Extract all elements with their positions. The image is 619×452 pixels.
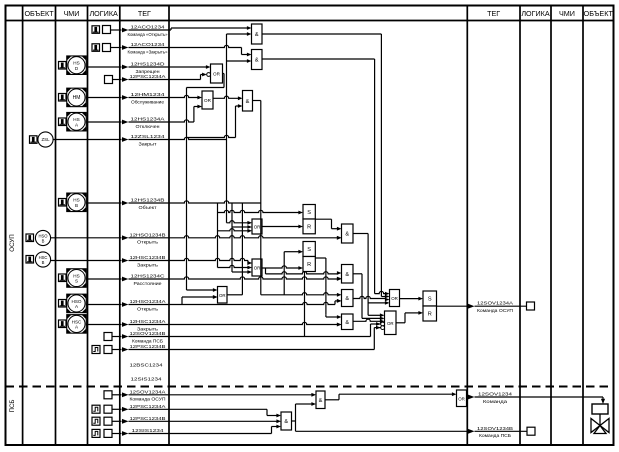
output net: 12SOV1234B Команда ПСБ xyxy=(468,426,527,438)
net: FF2 Q to AND D in1 xyxy=(315,258,337,317)
svg-text:12ACO1234: 12ACO1234 xyxy=(131,25,166,30)
HMI faceplate icon row1 xyxy=(92,26,100,34)
svg-text:ZSL: ZSL xyxy=(41,137,50,142)
svg-text:Закрыт: Закрыт xyxy=(139,141,157,146)
svg-text:12PSC1234B: 12PSC1234B xyxy=(130,416,166,421)
HMI handswitch HS/A xyxy=(67,112,87,131)
svg-text:B: B xyxy=(75,203,78,208)
output net: FF3 Q to 12SOV1234A Команда ОСУП xyxy=(437,301,527,313)
svg-text:12SOV1234B: 12SOV1234B xyxy=(130,331,166,336)
svg-text:12BSC1234: 12BSC1234 xyxy=(130,363,164,368)
svg-text:Отключен: Отключен xyxy=(136,124,161,129)
logic input square row4 xyxy=(105,76,113,84)
net: AND A output to OR G9/G10 xyxy=(353,234,385,316)
svg-text:S: S xyxy=(307,210,311,216)
AND gate A xyxy=(342,224,354,243)
HMI faceplate icon row5 xyxy=(59,94,67,102)
wire + tag 12ZSL1234 Закрыт xyxy=(53,134,226,146)
OR gate G4 (service/off) xyxy=(202,91,213,109)
svg-text:B: B xyxy=(42,238,45,243)
wire + tag 12HSC1234B Закрыть xyxy=(51,255,252,267)
svg-text:&: & xyxy=(345,272,349,278)
svg-text:Расстояние: Расстояние xyxy=(134,281,163,286)
wire + tag 12PSC1234A xyxy=(113,74,206,82)
logic input square row2 xyxy=(103,44,111,52)
HMI faceplate icon row13 xyxy=(59,320,67,328)
logic input square b4 xyxy=(104,429,112,437)
svg-text:12PSC1234B: 12PSC1234B xyxy=(130,344,166,349)
HMI handswitch HSO/A xyxy=(67,294,87,313)
svg-text:ОБЪЕКТ: ОБЪЕКТ xyxy=(584,9,614,18)
wire + tag 12SIS1234 (ПСБ) xyxy=(112,425,281,436)
HMI faceplate icon row6 xyxy=(59,118,67,126)
OR gate G9 (set) xyxy=(390,290,400,307)
svg-text:12PSC1234A: 12PSC1234A xyxy=(130,74,166,79)
logic pulse icon b2 xyxy=(92,405,100,413)
wire + tag 12HS1234C Расстояние xyxy=(87,274,342,286)
svg-text:Команда ОСУП: Команда ОСУП xyxy=(130,397,166,402)
OR gate G3 (inhibit) xyxy=(211,64,223,83)
logic input square row14 xyxy=(104,333,112,341)
wire + tag 12HSC1234A Закрыть xyxy=(87,319,342,331)
svg-text:12ZSL1234: 12ZSL1234 xyxy=(131,134,166,139)
svg-text:R: R xyxy=(307,262,311,268)
net: AND U1 output to OR U2 xyxy=(325,394,452,400)
svg-text:Команда ПСБ: Команда ПСБ xyxy=(479,433,511,438)
svg-text:12HSO1234B: 12HSO1234B xyxy=(130,232,166,237)
dashed section divider ОСУП/ПСБ xyxy=(6,386,614,388)
svg-text:12SIS1234: 12SIS1234 xyxy=(131,377,163,382)
svg-text:OR: OR xyxy=(254,225,261,230)
svg-text:12ACO1234: 12ACO1234 xyxy=(131,42,166,47)
HMI handswitch HS/D xyxy=(67,56,87,74)
OR gate G10 (reset) xyxy=(385,311,397,335)
svg-text:B: B xyxy=(42,260,45,265)
position switch ZSL xyxy=(38,132,53,147)
svg-text:R: R xyxy=(428,312,432,318)
net: FF1 Q to AND A xyxy=(315,219,337,229)
AND gate G2 (close command) xyxy=(252,50,263,70)
wire + tag 12SOV1234A Команда ОСУП (ПСБ) xyxy=(112,389,316,401)
SR flip-flop FF1 xyxy=(303,205,315,234)
valve body (3-way) xyxy=(591,419,609,434)
wire + tag 12PSC1234B (ПСБ) xyxy=(112,416,281,424)
svg-text:Открыть: Открыть xyxy=(137,306,159,311)
svg-text:12SOV1234A: 12SOV1234A xyxy=(477,301,513,306)
svg-text:&: & xyxy=(255,58,259,64)
logic input square row1 xyxy=(103,26,111,34)
svg-text:ОСУП: ОСУП xyxy=(9,234,16,251)
OR gate G7 xyxy=(252,259,262,276)
gate U2 input arrow xyxy=(452,392,457,396)
svg-text:&: & xyxy=(345,296,349,302)
wire + tag 12HS1234D Запрещен xyxy=(87,62,207,74)
svg-text:Команда ОСУП: Команда ОСУП xyxy=(477,308,513,313)
svg-text:OR: OR xyxy=(213,72,221,77)
svg-text:&: & xyxy=(255,32,259,38)
svg-text:OR: OR xyxy=(204,98,212,103)
svg-text:OR: OR xyxy=(254,266,261,271)
logic output square 12SOV1234A xyxy=(527,302,535,310)
svg-text:ЛОГИКА: ЛОГИКА xyxy=(89,9,118,18)
svg-text:OR: OR xyxy=(391,296,398,301)
net: AND G2 output to OR G9 xyxy=(262,59,385,294)
logic input square b3 xyxy=(104,417,112,425)
valve stem xyxy=(599,414,601,426)
wire + tag 12SOV1234B Команда ПСБ xyxy=(112,324,381,343)
svg-text:ЛОГИКА: ЛОГИКА xyxy=(521,9,550,18)
svg-text:12HSC1234A: 12HSC1234A xyxy=(130,319,166,324)
net: OR G4 output to AND G5 in1 xyxy=(213,96,238,98)
svg-text:12SOV1234: 12SOV1234 xyxy=(478,392,513,397)
svg-text:Команда «Закрыть»: Команда «Закрыть» xyxy=(128,49,169,54)
wire + tag 12ACO1234 Команда «Закрыть» xyxy=(111,42,248,55)
net: row8 branch to FF1 S xyxy=(218,203,299,268)
net: AND B output to OR G10 xyxy=(353,274,380,319)
svg-text:Объект: Объект xyxy=(139,205,157,210)
svg-text:S: S xyxy=(428,297,432,303)
logic input square b1 xyxy=(104,391,112,399)
HMI faceplate icon row3 xyxy=(59,62,67,70)
svg-text:&: & xyxy=(345,320,349,326)
svg-text:R: R xyxy=(307,225,311,231)
HMI handswitch HM xyxy=(67,88,87,107)
svg-text:&: & xyxy=(284,419,288,425)
HMI handswitch HSC/A xyxy=(67,315,87,334)
HMI faceplate icon row2 xyxy=(92,44,100,52)
HMI faceplate icon row11 xyxy=(59,274,67,282)
OR gate G8 (manual cmd) xyxy=(218,287,228,304)
svg-text:ОБЪЕКТ: ОБЪЕКТ xyxy=(24,9,54,18)
svg-text:12HS1234B: 12HS1234B xyxy=(131,198,165,203)
svg-text:12HS1234D: 12HS1234D xyxy=(131,62,166,67)
svg-text:Команда: Команда xyxy=(483,399,508,404)
net: AND L1 output to AND U1 and 12SOV1234B xyxy=(292,404,468,431)
svg-text:Обслуживание: Обслуживание xyxy=(131,99,165,104)
HMI faceplate icon row8 xyxy=(59,199,67,207)
logic pulse icon row15 xyxy=(92,346,100,354)
SR flip-flop FF2 xyxy=(303,242,315,272)
net: OR G9 output to FF3 S xyxy=(400,298,419,300)
svg-text:&: & xyxy=(246,99,250,105)
net: AND G5 output down to AND C in1 xyxy=(253,101,338,295)
wire + tag 12HSO1234A Открыть xyxy=(87,295,342,311)
logic pulse icon b4 xyxy=(92,429,100,437)
object switch HSC/B xyxy=(35,252,50,267)
svg-text:OR: OR xyxy=(458,396,465,401)
svg-text:12HS1234A: 12HS1234A xyxy=(131,117,165,122)
svg-text:OR: OR xyxy=(219,293,226,298)
svg-text:12HM1234: 12HM1234 xyxy=(131,92,166,97)
OR gate U2 (command out) xyxy=(457,390,467,407)
inverted input bubbles OR G3 / G10 xyxy=(202,73,207,77)
net: AND C output to OR G9 xyxy=(353,296,385,298)
svg-text:S: S xyxy=(75,279,78,284)
svg-text:HM: HM xyxy=(73,95,81,101)
output net: OR U2 to 12SOV1234 Команда (valve) xyxy=(468,392,605,405)
AND gate D xyxy=(342,314,354,330)
object faceplate icon row10 xyxy=(26,256,34,264)
HMI handswitch HS/B xyxy=(67,193,87,212)
wire + tag 12HS1234B Объект xyxy=(87,198,261,210)
SR flip-flop FF3 (output) xyxy=(423,291,437,321)
wire + tag 12ACO1234 Команда «Открыть» xyxy=(111,25,248,37)
AND gate G5 xyxy=(243,91,253,112)
svg-text:ЧМИ: ЧМИ xyxy=(64,9,80,18)
logic input square b2 xyxy=(104,405,112,413)
net: OR G10 output to FF3 R xyxy=(396,313,419,323)
gate U1 input arrow2 xyxy=(311,402,316,406)
svg-text:Закрыть: Закрыть xyxy=(137,262,159,267)
svg-text:ЧМИ: ЧМИ xyxy=(559,9,575,18)
AND gate L1 (ПСБ conditions) xyxy=(281,412,292,430)
logic output square 12SOV1234B xyxy=(527,427,535,435)
gate input arrows xyxy=(197,26,423,326)
net: AND D output to OR G10 xyxy=(353,319,380,321)
valve actuator xyxy=(592,404,608,414)
net: riser to FF2 S xyxy=(284,252,298,295)
AND gate U1 (ПСБ command) xyxy=(316,391,325,409)
net: OR G6 output to FF1 R xyxy=(262,226,299,228)
svg-text:ТЕГ: ТЕГ xyxy=(138,9,151,18)
svg-text:OR: OR xyxy=(387,321,394,326)
wire + tag 12HS1234A Отключен xyxy=(87,107,198,129)
object faceplate icon row7 xyxy=(30,136,38,144)
object switch HSO/B xyxy=(35,230,50,245)
wire + tag 12PSC1234A (ПСБ) xyxy=(112,404,281,418)
net: OR G3 output winding to AND G5 in2 and OR G7/G8 xyxy=(187,74,248,291)
svg-text:Команда «Открыть»: Команда «Открыть» xyxy=(128,32,169,37)
AND gate B xyxy=(342,265,354,284)
AND gate C xyxy=(342,290,354,307)
svg-text:&: & xyxy=(319,398,323,404)
wire + tag 12PSC1234B xyxy=(112,328,381,352)
net: OR gate (252,259) output to FF2 R and AND B in1 xyxy=(262,266,337,274)
AND gate G1 (open command) xyxy=(252,24,263,44)
net: AND G1 in2 / AND G2 in2 bus from Закрыт xyxy=(227,34,248,223)
svg-text:12SOV1234B: 12SOV1234B xyxy=(477,426,513,431)
svg-text:12SOV1234A: 12SOV1234A xyxy=(130,389,166,394)
svg-text:12HS1234C: 12HS1234C xyxy=(131,274,166,279)
svg-text:S: S xyxy=(307,247,311,253)
wire + tag 12HSO1234B Открыть xyxy=(51,232,342,244)
net: OR G8 output up to AND G5 via riser xyxy=(227,203,242,295)
net: AND G1 output to OR G9 xyxy=(262,34,385,297)
column headers xyxy=(24,9,613,18)
OR gate G6 xyxy=(252,219,262,234)
svg-text:Команда ПСБ: Команда ПСБ xyxy=(132,338,163,343)
svg-text:ПСБ: ПСБ xyxy=(9,400,16,413)
svg-text:ТЕГ: ТЕГ xyxy=(487,9,500,18)
svg-text:12PSC1234A: 12PSC1234A xyxy=(130,404,166,409)
object faceplate icon row9 xyxy=(26,234,34,242)
net: FF2 Q-bar vertical to OR G10 bubble net xyxy=(304,272,306,337)
svg-text:12SIS1234: 12SIS1234 xyxy=(132,428,165,433)
svg-text:12HSC1234B: 12HSC1234B xyxy=(130,255,166,260)
svg-text:12HSO1234A: 12HSO1234A xyxy=(130,299,166,304)
logic pulse icon b3 xyxy=(92,417,100,425)
wire + tag 12HM1234 Обслуживание xyxy=(87,92,198,104)
HMI faceplate icon row12 xyxy=(59,300,67,308)
HMI handswitch HS/S xyxy=(67,269,87,288)
svg-text:Открыть: Открыть xyxy=(137,240,159,245)
logic input square row15 xyxy=(104,346,112,354)
svg-text:&: & xyxy=(345,232,349,238)
